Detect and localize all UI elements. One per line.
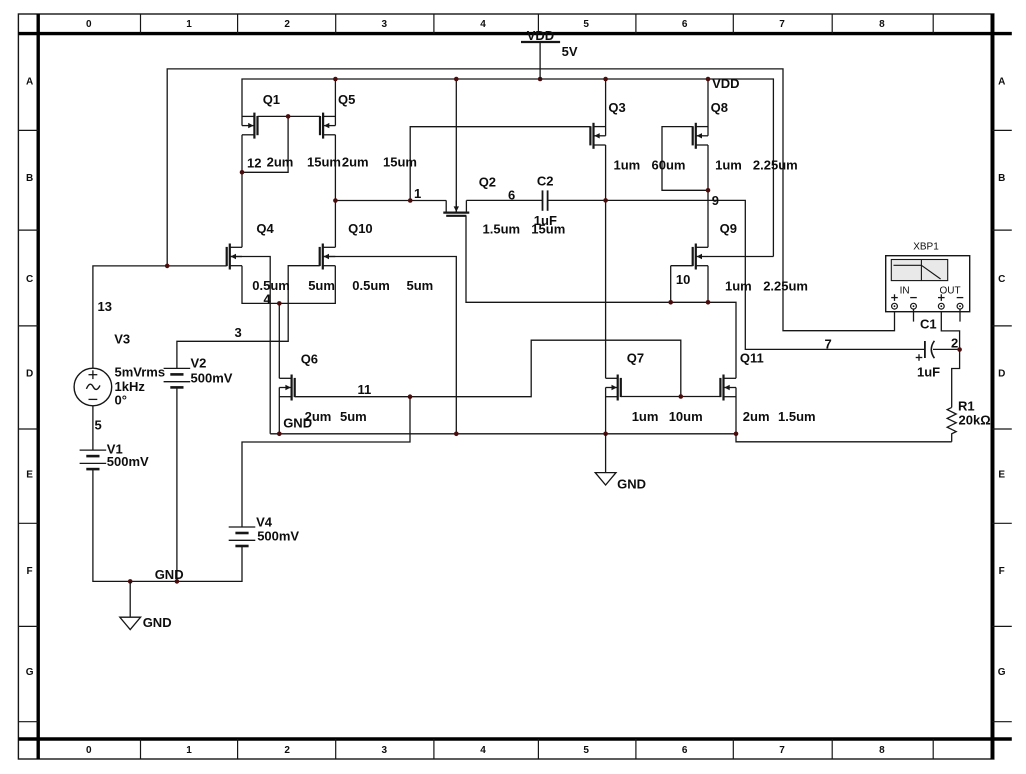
- svg-text:500mV: 500mV: [257, 529, 299, 544]
- svg-text:5um: 5um: [407, 278, 434, 293]
- svg-text:8: 8: [879, 19, 885, 30]
- svg-text:F: F: [27, 566, 33, 577]
- svg-text:60um: 60um: [652, 158, 686, 173]
- battery V1: [80, 450, 107, 469]
- svg-text:0°: 0°: [115, 393, 127, 408]
- wire node 3: V2 to Q10 gate: [177, 266, 320, 369]
- svg-text:9: 9: [712, 193, 719, 208]
- wire node 6: Q2 drain to C2: [466, 199, 542, 201]
- transistor Q6: [279, 375, 294, 401]
- power VDD symbol 5V: [521, 28, 578, 79]
- svg-text:15um: 15um: [383, 155, 417, 170]
- svg-text:Q9: Q9: [720, 221, 737, 236]
- svg-text:1: 1: [186, 19, 192, 30]
- svg-text:0.5um: 0.5um: [252, 278, 290, 293]
- wire node 4: Q4 source, Q10 source, Q6 drain: [242, 266, 335, 379]
- svg-text:V2: V2: [191, 356, 207, 371]
- svg-text:3: 3: [235, 325, 242, 340]
- wire node 10: Q2 gate, Q9 gate and drain, Q11 drain: [466, 216, 736, 378]
- svg-text:1: 1: [414, 186, 421, 201]
- svg-text:B: B: [26, 173, 33, 184]
- transistor Q1: [242, 113, 258, 139]
- svg-text:2: 2: [951, 336, 958, 351]
- svg-text:A: A: [998, 77, 1005, 88]
- svg-text:Q8: Q8: [711, 100, 728, 115]
- svg-text:10: 10: [676, 272, 690, 287]
- resistor R1: [947, 407, 956, 441]
- value V3 5mVrms 1kHz 0deg: [115, 365, 166, 408]
- wire node 2 output: C1, R1, Bode OUT: [933, 309, 962, 407]
- svg-text:Q10: Q10: [348, 221, 373, 236]
- svg-text:0.5um: 0.5um: [352, 278, 390, 293]
- battery V2: [164, 368, 191, 387]
- svg-text:3: 3: [382, 19, 388, 30]
- transistor Q10: [320, 244, 336, 270]
- source V3 AC: [74, 368, 112, 406]
- svg-text:5: 5: [95, 418, 102, 433]
- svg-text:4: 4: [480, 19, 486, 30]
- svg-text:E: E: [26, 470, 33, 481]
- svg-text:2um: 2um: [267, 155, 294, 170]
- transistor Q2: [443, 200, 469, 215]
- svg-text:VDD: VDD: [527, 28, 554, 43]
- wire node 11: Q6 gate, Q7 gate, Q11 gate, V4: [242, 340, 720, 527]
- svg-text:5um: 5um: [308, 278, 335, 293]
- svg-text:GND: GND: [143, 615, 172, 630]
- svg-text:XBP1: XBP1: [913, 242, 939, 253]
- svg-text:5: 5: [583, 19, 589, 30]
- svg-text:11: 11: [358, 382, 372, 397]
- svg-text:6: 6: [508, 188, 515, 203]
- svg-text:Q1: Q1: [263, 92, 280, 107]
- svg-text:5: 5: [583, 745, 589, 756]
- svg-text:5um: 5um: [340, 409, 367, 424]
- svg-text:C1: C1: [920, 317, 937, 332]
- svg-text:4: 4: [480, 745, 486, 756]
- svg-text:C: C: [26, 274, 33, 285]
- svg-text:C2: C2: [537, 174, 554, 189]
- svg-text:0: 0: [86, 19, 92, 30]
- svg-text:20kΩ: 20kΩ: [959, 413, 991, 428]
- ground symbol near V1: [120, 581, 172, 630]
- wire VDD rail: [242, 77, 773, 257]
- svg-text:8: 8: [879, 745, 885, 756]
- svg-text:B: B: [998, 173, 1005, 184]
- capacitor C2: [543, 190, 548, 210]
- svg-text:A: A: [26, 77, 33, 88]
- transistor Q5: [320, 113, 335, 139]
- wire node 9 / 7: C2 to Q3 drain, down to C1: [548, 145, 925, 378]
- svg-text:5V: 5V: [562, 44, 578, 59]
- svg-text:1.5um: 1.5um: [483, 222, 521, 237]
- svg-text:2.25um: 2.25um: [753, 158, 798, 173]
- svg-text:15um: 15um: [307, 155, 341, 170]
- capacitor C1 polarized: [916, 341, 935, 361]
- svg-text:7: 7: [825, 337, 832, 352]
- svg-text:500mV: 500mV: [107, 454, 149, 469]
- svg-text:7: 7: [779, 745, 785, 756]
- svg-text:GND: GND: [155, 567, 184, 582]
- svg-text:C: C: [998, 274, 1005, 285]
- ground symbol below Q7: [595, 434, 646, 492]
- wire node 12: Q1 drain/gate, Q5 gate, Q4 drain: [240, 114, 320, 247]
- transistor Q7: [606, 375, 621, 401]
- wire Q4 bulk to ground: [230, 257, 270, 434]
- svg-text:D: D: [26, 369, 33, 380]
- svg-text:5mVrms: 5mVrms: [115, 365, 166, 380]
- svg-text:4: 4: [264, 292, 272, 307]
- svg-text:1um: 1um: [632, 409, 659, 424]
- svg-text:1uF: 1uF: [534, 213, 557, 228]
- svg-text:Q3: Q3: [608, 100, 625, 115]
- svg-text:2: 2: [284, 745, 290, 756]
- wire GND bus: [270, 257, 952, 442]
- svg-text:R1: R1: [958, 399, 975, 414]
- svg-text:7: 7: [779, 19, 785, 30]
- svg-text:1um: 1um: [725, 279, 752, 294]
- wire ground bottom: V1, V2, V4 returns: [93, 387, 242, 583]
- svg-text:F: F: [999, 566, 1005, 577]
- svg-text:OUT: OUT: [939, 286, 960, 297]
- transistor Q9: [693, 244, 708, 270]
- battery V4: [229, 527, 256, 546]
- svg-text:G: G: [26, 667, 34, 678]
- svg-text:Q4: Q4: [256, 221, 274, 236]
- svg-text:2.25um: 2.25um: [763, 279, 808, 294]
- svg-text:VDD: VDD: [712, 76, 739, 91]
- wire node 5: V3 minus to V1: [92, 406, 94, 451]
- wire net 13 input: V3 plus to Q4 gate and Bode plotter IN: [93, 69, 895, 368]
- svg-text:13: 13: [98, 299, 112, 314]
- svg-text:6: 6: [682, 19, 688, 30]
- svg-text:2um: 2um: [743, 409, 770, 424]
- transistor Q8: [693, 123, 708, 149]
- svg-text:E: E: [998, 470, 1005, 481]
- svg-text:GND: GND: [617, 477, 646, 492]
- svg-text:1um: 1um: [715, 158, 742, 173]
- svg-text:500mV: 500mV: [191, 371, 233, 386]
- wire Q8 gate loop: [662, 127, 710, 248]
- wire node 1: Q5 drain, Q10 drain, Q2 source, Q3 gate: [333, 127, 590, 248]
- svg-text:Q7: Q7: [627, 351, 644, 366]
- svg-text:Q11: Q11: [740, 351, 764, 366]
- svg-text:2: 2: [284, 19, 290, 30]
- svg-text:1.5um: 1.5um: [778, 409, 816, 424]
- svg-text:1uF: 1uF: [917, 365, 940, 380]
- svg-text:V4: V4: [256, 515, 273, 530]
- svg-text:D: D: [998, 369, 1005, 380]
- svg-text:1um: 1um: [614, 158, 641, 173]
- svg-text:6: 6: [682, 745, 688, 756]
- svg-text:GND: GND: [283, 416, 312, 431]
- transistor Q11: [720, 375, 736, 401]
- svg-text:10um: 10um: [669, 409, 703, 424]
- svg-text:IN: IN: [900, 286, 910, 297]
- svg-text:Q5: Q5: [338, 92, 355, 107]
- transistor Q4: [227, 244, 242, 270]
- svg-text:0: 0: [86, 745, 92, 756]
- svg-text:Q2: Q2: [479, 175, 496, 190]
- transistor Q3: [590, 123, 605, 149]
- instrument XBP1 bode plotter: [886, 242, 970, 322]
- svg-text:V3: V3: [114, 332, 130, 347]
- svg-text:12: 12: [247, 156, 261, 171]
- svg-text:3: 3: [382, 745, 388, 756]
- svg-text:2um: 2um: [342, 155, 369, 170]
- svg-text:G: G: [998, 667, 1006, 678]
- svg-text:1: 1: [186, 745, 192, 756]
- svg-text:Q6: Q6: [301, 352, 318, 367]
